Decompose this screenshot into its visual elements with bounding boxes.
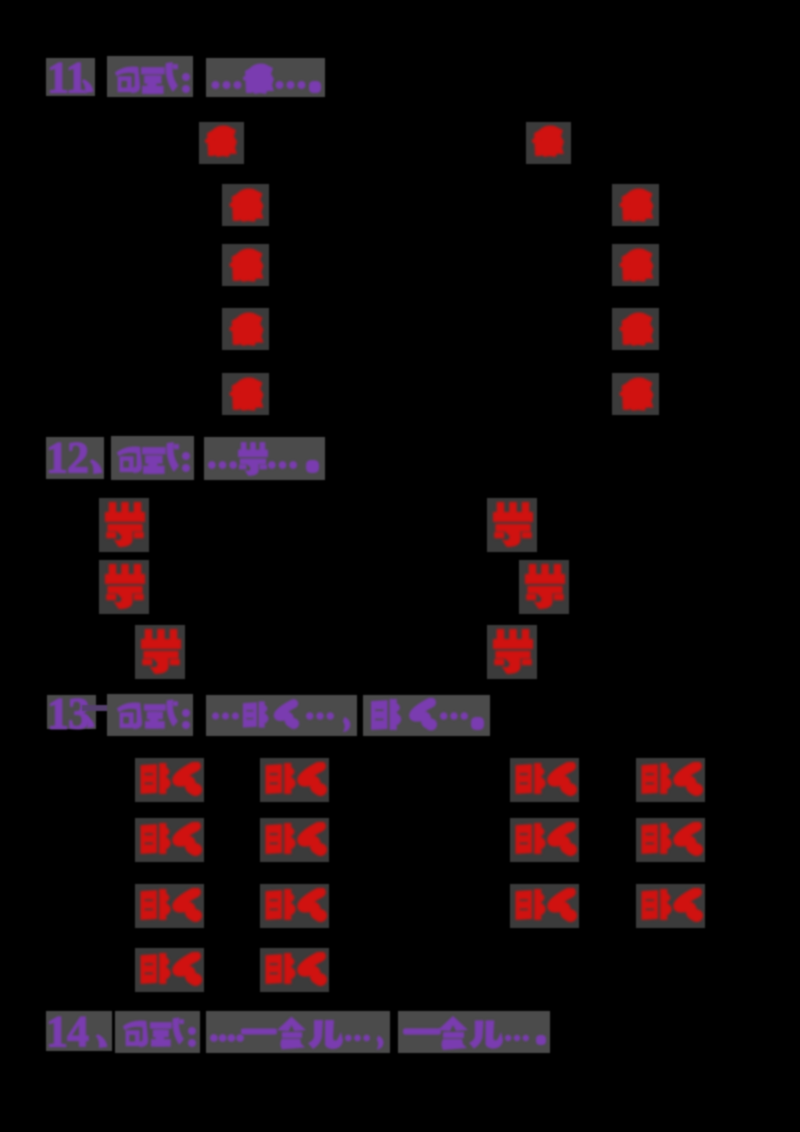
i11 row5 right xiang: [618, 377, 654, 412]
highlight box i12 row2 left xue box: [99, 560, 149, 614]
h14 yi 2: [403, 1028, 441, 1035]
i11 row1 left xiang: [203, 125, 238, 158]
highlight box i11 row2 left xiang box: [222, 184, 269, 226]
h14 hui 1: [277, 1016, 306, 1050]
i13 row1 pair3 na: [514, 762, 548, 795]
i12 row2 left xue: [104, 564, 146, 609]
h14 ellipsis-long: [210, 1034, 244, 1042]
i13 row3 pair1 na: [139, 888, 173, 921]
i12 row3 left xue: [140, 629, 182, 674]
h14 er 2: [469, 1018, 503, 1050]
highlight box i12 row3 left xue box: [135, 625, 185, 679]
h11 xiang: [242, 62, 274, 96]
i12 row1 right xue: [492, 502, 534, 547]
h13 ellipsis 2: [306, 712, 334, 720]
i13 row2 pair4 na: [640, 822, 674, 855]
h13 na 2: [369, 698, 404, 731]
highlight box i13 row4 pair2 box: [260, 948, 329, 992]
i13 row3 pair1 me: [169, 888, 203, 922]
h14 ellipsis 2: [345, 1034, 370, 1042]
highlight box h14 pattern run 1: [206, 1011, 390, 1053]
i13 row4 pair2 na: [264, 952, 298, 985]
highlight box i11 row4 right xiang box: [612, 308, 659, 350]
highlight box i12 row2 right xue box: [519, 560, 569, 614]
h14 ellipsis 3: [505, 1034, 529, 1042]
highlight box i13 row3 pair2 box: [260, 884, 329, 928]
i13 row1 pair2 me: [294, 762, 328, 796]
highlight box i13 row3 pair4 box: [636, 884, 705, 928]
highlight box h14 '14、': [46, 1011, 112, 1051]
h14 shi: [150, 1016, 184, 1049]
highlight box i12 row3 right xue box: [487, 625, 537, 679]
h14 period: [536, 1035, 546, 1045]
highlight box i13 row2 pair2 box: [260, 818, 329, 862]
h13 ju: [114, 698, 144, 732]
highlight box i11 row3 left xiang box: [222, 244, 269, 286]
h13 me 1: [271, 698, 300, 731]
highlight box h13 '句式：': [107, 694, 193, 736]
i13 row2 pair3 me: [544, 822, 578, 856]
header number 12: [46, 436, 88, 480]
h14 hui 2: [438, 1016, 468, 1050]
h12 ellipsis 2: [268, 461, 297, 469]
i11 row2 right xiang: [618, 188, 654, 223]
highlight box h13 pattern run 2: [363, 695, 490, 736]
i13 row3 pair2 me: [294, 888, 328, 922]
i13 row1 pair3 me: [544, 762, 578, 796]
i13 row4 pair1 me: [169, 952, 203, 986]
header number 14: [46, 1010, 88, 1054]
highlight box i13 row1 pair3 box: [510, 758, 579, 802]
h12 period: [306, 460, 319, 473]
highlight box i11 row4 left xiang box: [222, 308, 269, 350]
i12 row2 right xue: [524, 564, 566, 609]
i13 row1 pair4 na: [640, 762, 674, 795]
highlight box i13 row3 pair1 box: [135, 884, 204, 928]
i13 row3 pair2 na: [264, 888, 298, 921]
h14 colon: [188, 1026, 196, 1048]
i13 row4 pair1 na: [139, 952, 173, 985]
h12 shi: [142, 442, 179, 475]
i13 row1 pair1 na: [139, 762, 173, 795]
highlight box i13 row1 pair4 box: [636, 758, 705, 802]
i13 row2 pair3 na: [514, 822, 548, 855]
h12 dun-comma: [88, 458, 104, 474]
i13 row3 pair3 me: [544, 888, 578, 922]
highlight box i11 row3 right xiang box: [612, 244, 659, 286]
i13 row3 pair3 na: [514, 888, 548, 921]
i12 row1 left xue: [104, 502, 146, 547]
highlight box i13 row2 pair3 box: [510, 818, 579, 862]
highlight box i11 row2 right xiang box: [612, 184, 659, 226]
h12 colon: [182, 452, 190, 472]
highlight box i13 row4 pair1 box: [135, 948, 204, 992]
i13 row2 pair2 na: [264, 822, 298, 855]
highlight box h11 '句式：': [107, 56, 193, 97]
highlight box i12 row1 right xue box: [487, 498, 537, 552]
h13 period: [471, 717, 484, 730]
h14 yi 1: [241, 1028, 277, 1035]
i11 row2 left xiang: [228, 188, 264, 223]
i13 row1 pair2 na: [264, 762, 298, 795]
h11 shi: [141, 62, 178, 95]
highlight box i11 row5 left xiang box: [222, 373, 269, 415]
i13 row3 pair4 na: [640, 888, 674, 921]
highlight box h14 pattern run 2: [398, 1011, 550, 1053]
i11 row4 right xiang: [618, 312, 654, 347]
h11 colon: [182, 73, 190, 93]
highlight box i12 row1 left xue box: [99, 498, 149, 552]
h13 shi: [144, 698, 178, 731]
i13 row1 pair4 me: [670, 762, 704, 796]
h14 comma: [375, 1034, 385, 1051]
i13 row3 pair4 me: [670, 888, 704, 922]
h11 ellipsis 2: [275, 81, 306, 89]
i11 row3 left xiang: [228, 248, 264, 283]
i13 row4 pair2 me: [294, 952, 328, 986]
h13 na 1: [242, 698, 270, 731]
h12 ju: [114, 442, 144, 476]
highlight box h14 '句式：': [115, 1011, 200, 1053]
h12 ellipsis 1: [208, 461, 237, 469]
h14 er 1: [308, 1018, 343, 1050]
h14 ju: [120, 1016, 150, 1050]
highlight box h11 '11、': [46, 58, 95, 96]
i11 row1 right xiang: [530, 125, 565, 158]
highlight box i11 row5 right xiang box: [612, 373, 659, 415]
i13 row2 pair4 me: [670, 822, 704, 856]
h14 dun-comma: [94, 1033, 109, 1048]
h13 comma: [341, 716, 352, 733]
i13 row2 pair1 na: [139, 822, 173, 855]
highlight box h12 '12、': [46, 437, 104, 479]
i13 row2 pair1 me: [169, 822, 203, 856]
i11 row5 left xiang: [228, 377, 264, 412]
h11 ellipsis 1: [211, 81, 242, 89]
highlight box i13 row2 pair1 box: [135, 818, 204, 862]
h13 faint dash: [82, 705, 113, 711]
highlight box i13 row1 pair1 box: [135, 758, 204, 802]
h11 dun-comma: [80, 78, 95, 93]
i13 row1 pair1 me: [169, 762, 203, 796]
highlight box h11 pattern run: [206, 58, 325, 97]
h13 ellipsis 1: [212, 712, 239, 720]
header number 13: [47, 692, 89, 736]
highlight box i11 row1 left xiang box: [199, 122, 244, 164]
highlight box h13 pattern run 1: [206, 695, 357, 736]
i11 row3 right xiang: [618, 248, 654, 283]
highlight box h12 pattern run: [204, 437, 325, 480]
highlight box i13 row3 pair3 box: [510, 884, 579, 928]
highlight box h12 '句式：': [111, 436, 194, 480]
highlight box i11 row1 right xiang box: [526, 122, 571, 164]
header number 11: [47, 56, 87, 100]
h13 colon: [182, 708, 190, 730]
h13 me 2: [406, 698, 438, 731]
i12 row3 right xue: [492, 629, 534, 674]
h11 period: [309, 81, 321, 93]
highlight box i13 row2 pair4 box: [636, 818, 705, 862]
highlight box i13 row1 pair2 box: [260, 758, 329, 802]
i11 row4 left xiang: [228, 312, 264, 347]
i13 row2 pair2 me: [294, 822, 328, 856]
highlight box h13 '13、': [47, 695, 96, 729]
h12 xue: [238, 440, 268, 478]
h13 dun-comma: [83, 715, 96, 728]
h13 ellipsis 3: [440, 712, 468, 720]
h11 ju: [112, 62, 142, 96]
